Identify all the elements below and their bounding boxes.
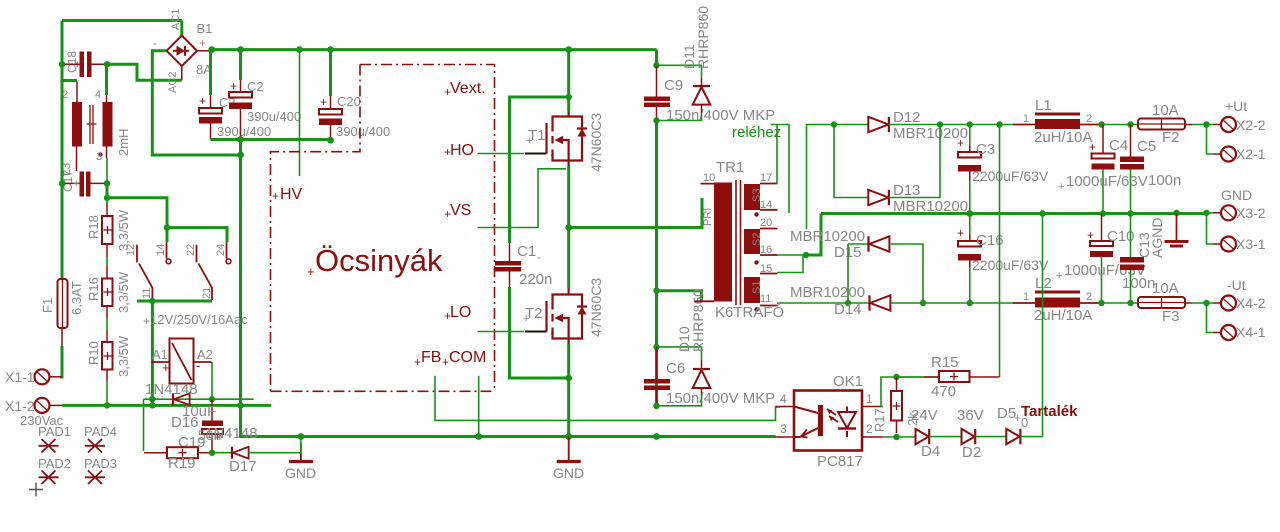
svg-text:GND: GND <box>553 465 584 481</box>
svg-text:C20: C20 <box>337 94 361 109</box>
junction C16 bottom <box>967 300 973 306</box>
wire pin16 to gnd tap <box>777 254 806 256</box>
svg-text:10A: 10A <box>1152 102 1179 119</box>
svg-text:F2: F2 <box>1162 129 1180 146</box>
junction D13 anode drop <box>831 121 837 127</box>
junction rail capB <box>237 46 244 53</box>
junction C19 R19 D17 <box>209 450 215 456</box>
svg-text:C1: C1 <box>517 243 536 260</box>
primary winding <box>714 183 732 302</box>
diode D13 <box>868 182 968 215</box>
capacitor C4 <box>1058 125 1148 214</box>
wire T1 drain to C1 elbow <box>510 97 569 243</box>
svg-text:220n: 220n <box>519 271 552 288</box>
junction X3 <box>1203 210 1209 216</box>
svg-text:C13: C13 <box>1136 232 1152 258</box>
svg-text:+: + <box>230 79 237 93</box>
svg-text:47N60C3: 47N60C3 <box>588 113 604 172</box>
wire midpoint to primary <box>569 198 702 228</box>
svg-text:150n/400V MKP: 150n/400V MKP <box>666 107 775 124</box>
wire X1-2 mains line <box>62 404 271 407</box>
svg-text:C9: C9 <box>664 77 683 94</box>
svg-text:4: 4 <box>780 392 787 406</box>
svg-text:21: 21 <box>201 287 213 299</box>
wire F2 to X2 <box>1192 124 1213 126</box>
fuse F1 <box>40 279 84 328</box>
connector X4-2 <box>1213 277 1266 311</box>
junction X1-2 R10 <box>104 402 110 408</box>
junction rail C20 <box>327 46 334 53</box>
capacitor C16 <box>957 214 1049 304</box>
wire relehez <box>771 125 789 214</box>
resistor R17 <box>872 377 920 433</box>
svg-text:1N4148: 1N4148 <box>205 425 258 442</box>
capacitor C2b (mid bulk 390u) <box>229 50 301 140</box>
svg-text:D2: D2 <box>962 444 981 461</box>
svg-text:+: + <box>1058 181 1064 193</box>
wire pin1 to R17 top <box>881 377 924 407</box>
junction C3 bottom mid rail <box>966 210 973 217</box>
svg-text:R19: R19 <box>168 455 196 472</box>
choke L3 <box>59 64 131 183</box>
capacitor C5 <box>1120 125 1181 214</box>
junction bus C6 <box>653 433 660 440</box>
wire D17 anode to GND <box>249 437 301 453</box>
wire D16 line <box>144 399 254 451</box>
svg-text:D12: D12 <box>893 109 921 126</box>
junction L2 out <box>1098 300 1104 306</box>
junction C18 left <box>59 61 65 67</box>
pad PAD4 <box>85 439 105 453</box>
junction D11 top <box>653 62 659 68</box>
junction rail HV <box>296 46 303 53</box>
capacitor C18 <box>62 51 107 77</box>
svg-text:R16: R16 <box>86 277 101 301</box>
svg-text:PAD1: PAD1 <box>38 424 71 439</box>
svg-text:2mH: 2mH <box>116 129 131 156</box>
svg-text:16: 16 <box>760 244 772 256</box>
junction X2 <box>1203 121 1209 127</box>
dashed controller outline <box>271 65 495 392</box>
relay contact 2 (22-21-24) <box>197 242 227 300</box>
connector X1-2 <box>5 398 62 414</box>
svg-text:C5: C5 <box>1137 138 1156 155</box>
wire L2 to F3 <box>1100 302 1138 304</box>
junction rail capA <box>208 46 215 53</box>
wire T1 drain <box>567 50 570 111</box>
pad PAD3 <box>85 471 105 485</box>
capacitor C3 <box>957 125 1049 214</box>
wire to primary bottom <box>657 291 702 302</box>
junction T2 source <box>565 375 572 382</box>
capacitor C20 (bulk 390u) <box>319 50 390 141</box>
svg-text:RHRP860: RHRP860 <box>695 6 711 69</box>
wire F1 to X1-1 <box>60 346 62 377</box>
inductor L2 <box>1013 275 1100 324</box>
diode D10 <box>676 289 710 393</box>
wire gnd tap to mid rail <box>806 214 821 256</box>
wire FB <box>435 376 780 421</box>
junction D15 drop <box>845 300 851 306</box>
transistor T2 <box>547 288 583 345</box>
plus output rail <box>889 124 1013 126</box>
svg-text:L1: L1 <box>1035 97 1052 114</box>
wire pin11 to D14 <box>777 302 869 304</box>
svg-text:+: + <box>523 313 529 325</box>
svg-text:COM: COM <box>449 349 486 366</box>
svg-text:15: 15 <box>760 263 772 275</box>
secondary GND mid rail <box>821 212 1207 215</box>
svg-text:GND: GND <box>1221 187 1252 203</box>
svg-text:OK1: OK1 <box>833 373 863 390</box>
junction mid rail C10 top <box>1039 210 1045 216</box>
wire D13 anode drop <box>834 125 868 198</box>
svg-text:B1: B1 <box>197 21 213 36</box>
svg-text:reléhez: reléhez <box>732 124 781 141</box>
svg-text:1N4148: 1N4148 <box>145 381 198 398</box>
junction gnd tap <box>803 252 809 258</box>
long vertical negative to GND bus <box>241 140 776 437</box>
wire D10 anode <box>657 393 702 406</box>
svg-text:+: + <box>414 355 421 369</box>
svg-text:390u/400: 390u/400 <box>247 109 301 124</box>
svg-text:+: + <box>307 264 315 279</box>
svg-text:RHRP860: RHRP860 <box>690 289 706 352</box>
connector X2-1 <box>1213 146 1266 162</box>
connector X3-1 <box>1213 236 1266 252</box>
diode D15 <box>790 228 889 261</box>
wire D13 cathode up <box>889 125 940 198</box>
connector X1-1 <box>5 369 62 385</box>
connector X3-2 <box>1213 187 1266 221</box>
B1 plus lead <box>197 50 209 52</box>
svg-text:24: 24 <box>215 244 227 256</box>
svg-text:AC1: AC1 <box>170 9 182 30</box>
junction C6 bottom <box>653 403 659 409</box>
svg-text:PC817: PC817 <box>817 453 863 470</box>
HV+ top rail <box>209 48 657 51</box>
svg-text:X4-1: X4-1 <box>1236 324 1266 340</box>
capacitor C2a (left bulk 390u) <box>199 50 271 140</box>
zener D4 <box>911 407 940 460</box>
svg-text:X2-1: X2-1 <box>1236 146 1266 162</box>
capacitor C6 <box>644 347 775 407</box>
wire pin2 zener chain <box>883 436 914 438</box>
relay contact 1 (12-11-14) <box>137 242 167 300</box>
svg-text:D13: D13 <box>893 182 921 199</box>
wire X3-1 drop <box>1207 213 1214 244</box>
transistor T1 <box>547 110 583 167</box>
diode D14 <box>790 284 890 318</box>
svg-text:+: + <box>73 178 79 190</box>
svg-text:10uF: 10uF <box>182 403 216 420</box>
svg-text:HV: HV <box>280 186 303 203</box>
svg-text:-Ut: -Ut <box>1227 277 1246 293</box>
svg-text:+: + <box>444 309 451 323</box>
svg-text:D17: D17 <box>229 458 257 475</box>
svg-text:Tartalék: Tartalék <box>1021 403 1078 420</box>
svg-text:AC2: AC2 <box>167 72 179 93</box>
wire VS stair <box>478 169 567 228</box>
junction mid rail C4 <box>1100 210 1106 216</box>
wire pin15 jog <box>777 255 803 273</box>
junction A2 <box>209 396 215 402</box>
junction D15 anode <box>920 300 926 306</box>
svg-text:17: 17 <box>760 172 772 184</box>
svg-text:X4-2: X4-2 <box>1236 295 1266 311</box>
svg-text:LO: LO <box>450 304 471 321</box>
junction X1-2 relay <box>149 402 155 408</box>
junction mid rail C5 <box>1127 210 1133 216</box>
pad PAD2 <box>39 471 59 485</box>
capacitor C17 <box>61 170 107 197</box>
capacitor C13 <box>1120 214 1155 304</box>
svg-text:3,3/5W: 3,3/5W <box>116 335 131 377</box>
junction minus wire <box>237 152 244 159</box>
svg-text:F3: F3 <box>1162 308 1180 325</box>
junction arms <box>149 298 155 304</box>
left vertical wire to F1 <box>61 64 64 279</box>
wire LO <box>478 331 525 333</box>
wire mid rail to X3 <box>1207 212 1214 214</box>
svg-text:+: + <box>957 136 964 150</box>
junction bus COM <box>475 433 482 440</box>
junction C13 bottom <box>1127 300 1133 306</box>
wire AC1 drop <box>180 21 183 37</box>
wire HO <box>478 153 525 155</box>
negative rail under bulk caps <box>211 138 331 141</box>
svg-text:150n/400V MKP: 150n/400V MKP <box>666 390 775 407</box>
resistor R10 <box>86 318 131 381</box>
svg-text:K6TRAFÓ: K6TRAFÓ <box>715 304 784 321</box>
svg-text:C2: C2 <box>247 79 264 94</box>
svg-text:-: - <box>153 36 157 50</box>
svg-text:12V/250V/16Aac: 12V/250V/16Aac <box>150 312 248 327</box>
svg-text:6,3AT: 6,3AT <box>69 281 84 315</box>
wire T1 source to midpoint <box>567 166 570 288</box>
diode D16 <box>145 381 199 431</box>
svg-text:+: + <box>444 85 451 99</box>
svg-text:3: 3 <box>96 151 102 163</box>
svg-text:1: 1 <box>866 392 873 406</box>
winding S1 <box>744 277 760 303</box>
svg-text:24V: 24V <box>911 407 938 424</box>
wire rectifier feed pin20 <box>807 125 835 230</box>
svg-text:Vext.: Vext. <box>450 80 486 97</box>
svg-text:390u/400: 390u/400 <box>336 124 390 139</box>
svg-text:100n: 100n <box>1122 275 1155 292</box>
svg-text:1: 1 <box>1023 113 1029 125</box>
resistor R16 <box>86 257 131 318</box>
svg-text:+: + <box>272 189 279 203</box>
junction R18 top <box>104 195 110 201</box>
resistor R19 <box>144 447 209 472</box>
wire top-left loop <box>62 21 182 81</box>
wire D4 to D2 <box>929 436 961 438</box>
svg-text:14: 14 <box>760 199 772 211</box>
junction primary bottom <box>653 288 659 294</box>
svg-text:36V: 36V <box>957 407 984 424</box>
wire A2 down <box>211 362 213 399</box>
junction bus T2 <box>565 433 572 440</box>
svg-text:3,3/5W: 3,3/5W <box>116 271 131 313</box>
svg-text:D14: D14 <box>834 301 862 318</box>
svg-text:390u/400: 390u/400 <box>217 124 271 139</box>
minus output rail <box>890 302 1013 304</box>
junction T1 drain <box>566 94 572 100</box>
svg-text:+: + <box>320 95 327 109</box>
wire L1 to F2 <box>1100 124 1138 126</box>
svg-text:X1-2: X1-2 <box>5 398 35 414</box>
optocoupler OK1 <box>776 373 884 470</box>
svg-text:R15: R15 <box>931 354 959 371</box>
svg-text:TR1: TR1 <box>716 159 744 176</box>
svg-text:R10: R10 <box>86 341 101 365</box>
junction neg rail capB <box>237 136 244 143</box>
svg-text:C4: C4 <box>1109 137 1128 154</box>
connector X2-2 <box>1213 98 1266 133</box>
svg-text:+: + <box>1087 228 1094 242</box>
wire D2 to D5 <box>975 436 1006 438</box>
svg-text:12: 12 <box>125 244 137 256</box>
svg-text:+: + <box>1089 140 1096 154</box>
svg-text:+: + <box>957 226 964 240</box>
winding S3 <box>744 184 760 210</box>
junction neg rail C20 <box>327 137 334 144</box>
wire C18 right to AC2 <box>107 64 182 80</box>
bridge rectifier B1 <box>167 36 197 67</box>
svg-text:11: 11 <box>141 288 153 299</box>
svg-text:1000uF/63V: 1000uF/63V <box>1066 173 1148 190</box>
wire rail corner to C9 <box>655 50 658 66</box>
junction rail T1 drain <box>565 46 572 53</box>
wire R15 feed vertical <box>999 125 1001 378</box>
diode D5 <box>997 405 1028 444</box>
svg-text:+: + <box>444 145 451 159</box>
junction R15 top <box>996 121 1002 127</box>
wire D11 cathode <box>657 65 702 78</box>
HV pin wire <box>299 50 301 176</box>
wire COM <box>478 376 480 437</box>
svg-text:+: + <box>1014 411 1021 425</box>
svg-text:PAD4: PAD4 <box>84 424 117 439</box>
svg-text:GND: GND <box>285 465 316 481</box>
junction C17 right <box>104 180 110 186</box>
svg-text:PRI: PRI <box>702 208 714 226</box>
AGND symbol <box>1136 213 1189 258</box>
ground symbol GND1 <box>285 443 316 481</box>
svg-text:2200uF/63V: 2200uF/63V <box>972 257 1049 273</box>
junction C18 right <box>104 61 110 67</box>
wire D15 anode <box>889 244 923 303</box>
svg-text:L2: L2 <box>1035 275 1052 292</box>
pad PAD1 <box>39 439 59 453</box>
svg-text:X3-1: X3-1 <box>1236 236 1266 252</box>
svg-text:-: - <box>537 250 541 264</box>
svg-text:+: + <box>199 36 206 50</box>
wire pin17 up <box>776 125 778 184</box>
svg-text:R18: R18 <box>86 215 101 239</box>
svg-text:VS: VS <box>450 202 471 219</box>
svg-text:PAD3: PAD3 <box>84 456 117 471</box>
junction L1 out <box>1098 121 1104 127</box>
svg-text:+: + <box>143 314 150 328</box>
capacitor C19 <box>178 399 223 453</box>
diode D17 <box>205 425 258 475</box>
capacitor C10 <box>1056 214 1146 304</box>
svg-text:+: + <box>1056 270 1062 282</box>
resistor R18 <box>86 198 131 257</box>
diode D11 <box>681 6 711 113</box>
svg-text:S1: S1 <box>751 281 763 294</box>
zener D2 <box>957 407 984 461</box>
diode D12 <box>834 109 968 142</box>
svg-text:MBR10200: MBR10200 <box>790 228 865 245</box>
svg-text:+: + <box>162 360 170 375</box>
svg-text:14: 14 <box>155 244 167 256</box>
svg-text:C6: C6 <box>666 360 685 377</box>
wire C17 junction down <box>107 183 167 227</box>
svg-text:20: 20 <box>760 217 772 229</box>
junction C3 top <box>967 121 973 127</box>
svg-text:X2-2: X2-2 <box>1236 117 1266 133</box>
junction C9 bottom <box>653 117 659 123</box>
junction midpoint <box>565 224 572 231</box>
junction mid rail AGND <box>1173 210 1179 216</box>
wire C1 bottom to T2 source net <box>510 287 569 378</box>
junction C17 left <box>59 180 65 186</box>
svg-text:1: 1 <box>1023 291 1029 303</box>
svg-text:10: 10 <box>703 172 715 184</box>
capacitor C9 <box>644 66 775 124</box>
junction D13 cathode <box>937 121 943 127</box>
origin cross bottom left <box>29 483 43 497</box>
resistor R15 <box>897 354 1000 400</box>
svg-text:D4: D4 <box>921 443 940 460</box>
svg-text:R17: R17 <box>872 408 887 432</box>
svg-text:2uH/10A: 2uH/10A <box>1034 129 1092 146</box>
svg-text:PAD2: PAD2 <box>38 456 71 471</box>
svg-text:22: 22 <box>185 244 197 256</box>
svg-text:HO: HO <box>450 142 474 159</box>
B1 minus wire to DC bus <box>152 51 240 155</box>
ground symbol GND2 <box>553 437 584 482</box>
junction C6 top <box>653 344 659 350</box>
svg-text:100n: 100n <box>1148 172 1181 189</box>
connector X4-1 <box>1213 324 1266 340</box>
svg-text:Öcsinyák: Öcsinyák <box>315 243 443 278</box>
svg-text:-: - <box>196 358 200 373</box>
svg-text:FB: FB <box>421 349 441 366</box>
svg-text:MBR10200: MBR10200 <box>790 284 865 301</box>
svg-text:+: + <box>199 94 206 108</box>
svg-text:3: 3 <box>780 422 787 436</box>
wire X4-1 drop <box>1207 303 1214 333</box>
svg-text:2200uF/63V: 2200uF/63V <box>972 168 1049 184</box>
inductor L1 <box>1013 97 1100 146</box>
wire D15 cathode drop <box>847 244 849 303</box>
wire snubber mid vertical <box>655 121 658 406</box>
svg-text:10A: 10A <box>1152 280 1179 297</box>
wire F3 to X4 <box>1192 302 1213 304</box>
relay coil <box>152 339 213 384</box>
svg-text:2: 2 <box>1086 113 1092 125</box>
wire D11 anode to C9 bottom <box>657 113 702 121</box>
transformer core <box>736 180 741 305</box>
junction X4 <box>1203 300 1209 306</box>
junction D16 mains <box>149 396 155 402</box>
svg-text:X3-2: X3-2 <box>1236 205 1266 221</box>
